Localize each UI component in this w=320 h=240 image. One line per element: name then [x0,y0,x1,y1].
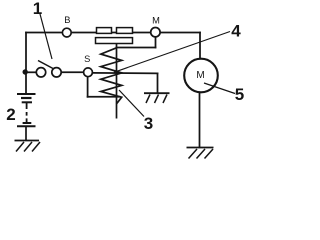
switch contact circle left [36,68,45,77]
wire from M terminal right to motor riser [199,33,201,60]
wire from M terminal down [155,38,157,48]
battery T bar [22,101,32,103]
wire switch row right segment to S terminal [61,71,84,73]
svg-text:S: S [84,54,90,64]
ground left hatch 1 [16,142,24,152]
svg-text:1: 1 [33,0,42,18]
terminal M circle [151,28,160,37]
ground bottom hatch 2 [197,149,206,159]
ground left bar [15,140,40,142]
svg-text:4: 4 [231,22,241,41]
ground left hatch 3 [32,142,40,152]
wire from S terminal right to mid ground [92,72,157,75]
wire switch row left segment [26,71,37,73]
svg-text:5: 5 [235,85,244,104]
ground bottom hatch 3 [205,149,214,159]
wire motor bottom to ground [199,92,201,147]
svg-text:M: M [152,15,160,25]
wire down to mid ground [157,73,159,92]
battery 2 long plate top [17,93,36,95]
ground mid bar [144,92,170,94]
leader line for label 3 [119,90,144,117]
svg-text:B: B [64,15,70,25]
motor circle 5 [184,59,218,93]
battery dashed stem [26,103,28,122]
wire from M riser left to coil top [117,47,156,49]
coil shaft vertical [116,44,118,119]
battery short plate [21,97,32,99]
fuse box F1 [97,28,112,34]
wire from S terminal down [87,77,89,97]
svg-text:3: 3 [144,114,153,133]
ground mid hatch 2 [155,95,159,104]
switch contact circle right [52,68,61,77]
leader line for label 1 [40,14,52,59]
ground bottom bar (motor) [187,147,214,149]
svg-text:M: M [196,70,204,81]
resistor block wide rectangle [96,38,133,44]
switch lever blade [38,61,53,69]
leader line for label 4 [114,32,230,73]
bimetal coil zigzag 3 [101,48,122,104]
fuse box F2 [117,28,133,34]
junction node on left vertical [23,69,28,74]
ground bottom hatch 1 [189,149,198,159]
wire left vertical from top corner to battery [25,33,27,94]
wire top horizontal B row [26,32,200,34]
leader line for label 5 [204,83,235,94]
wire battery to left ground [25,127,27,140]
battery long plate bottom [17,125,36,127]
ground mid hatch 3 [163,95,167,104]
ground mid hatch 1 [146,95,150,104]
svg-text:2: 2 [6,105,15,124]
ground left hatch 2 [24,142,32,152]
wire lower S horizontal to coil shaft [88,96,120,98]
battery bottom T bar [23,122,32,124]
terminal B circle [62,28,71,37]
terminal S circle [84,68,93,77]
